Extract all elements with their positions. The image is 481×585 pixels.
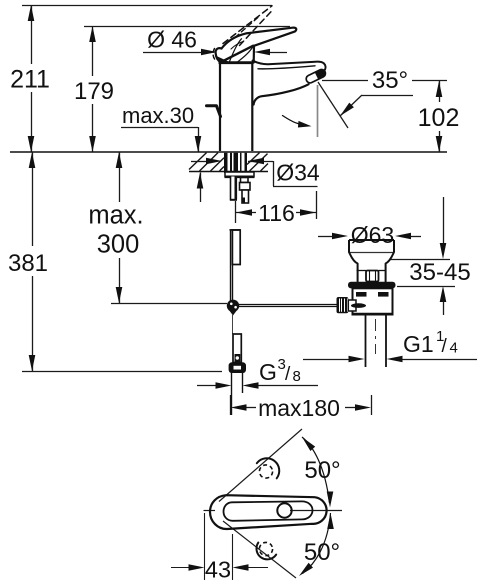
svg-text:211: 211 xyxy=(10,66,50,94)
svg-text:35-45: 35-45 xyxy=(409,259,470,286)
svg-text:50°: 50° xyxy=(304,539,340,566)
svg-text:102: 102 xyxy=(418,104,460,132)
svg-text:381: 381 xyxy=(8,250,48,277)
svg-text:Ø34: Ø34 xyxy=(276,160,320,186)
svg-text:G1: G1 xyxy=(403,331,434,357)
svg-text:300: 300 xyxy=(97,231,140,259)
svg-text:max.30: max.30 xyxy=(122,103,194,128)
svg-text:/: / xyxy=(442,336,448,357)
svg-text:Ø 46: Ø 46 xyxy=(147,27,197,53)
svg-text:max.: max. xyxy=(88,202,143,230)
svg-text:/: / xyxy=(285,364,291,385)
svg-text:G: G xyxy=(259,359,277,385)
svg-text:116: 116 xyxy=(258,200,295,226)
svg-text:43: 43 xyxy=(205,557,231,583)
svg-text:179: 179 xyxy=(74,78,114,105)
svg-text:4: 4 xyxy=(450,340,458,357)
svg-text:8: 8 xyxy=(293,368,301,385)
svg-text:50°: 50° xyxy=(304,457,340,484)
svg-text:35°: 35° xyxy=(372,67,408,94)
svg-text:Ø63: Ø63 xyxy=(351,222,394,248)
svg-text:max180: max180 xyxy=(258,395,340,421)
